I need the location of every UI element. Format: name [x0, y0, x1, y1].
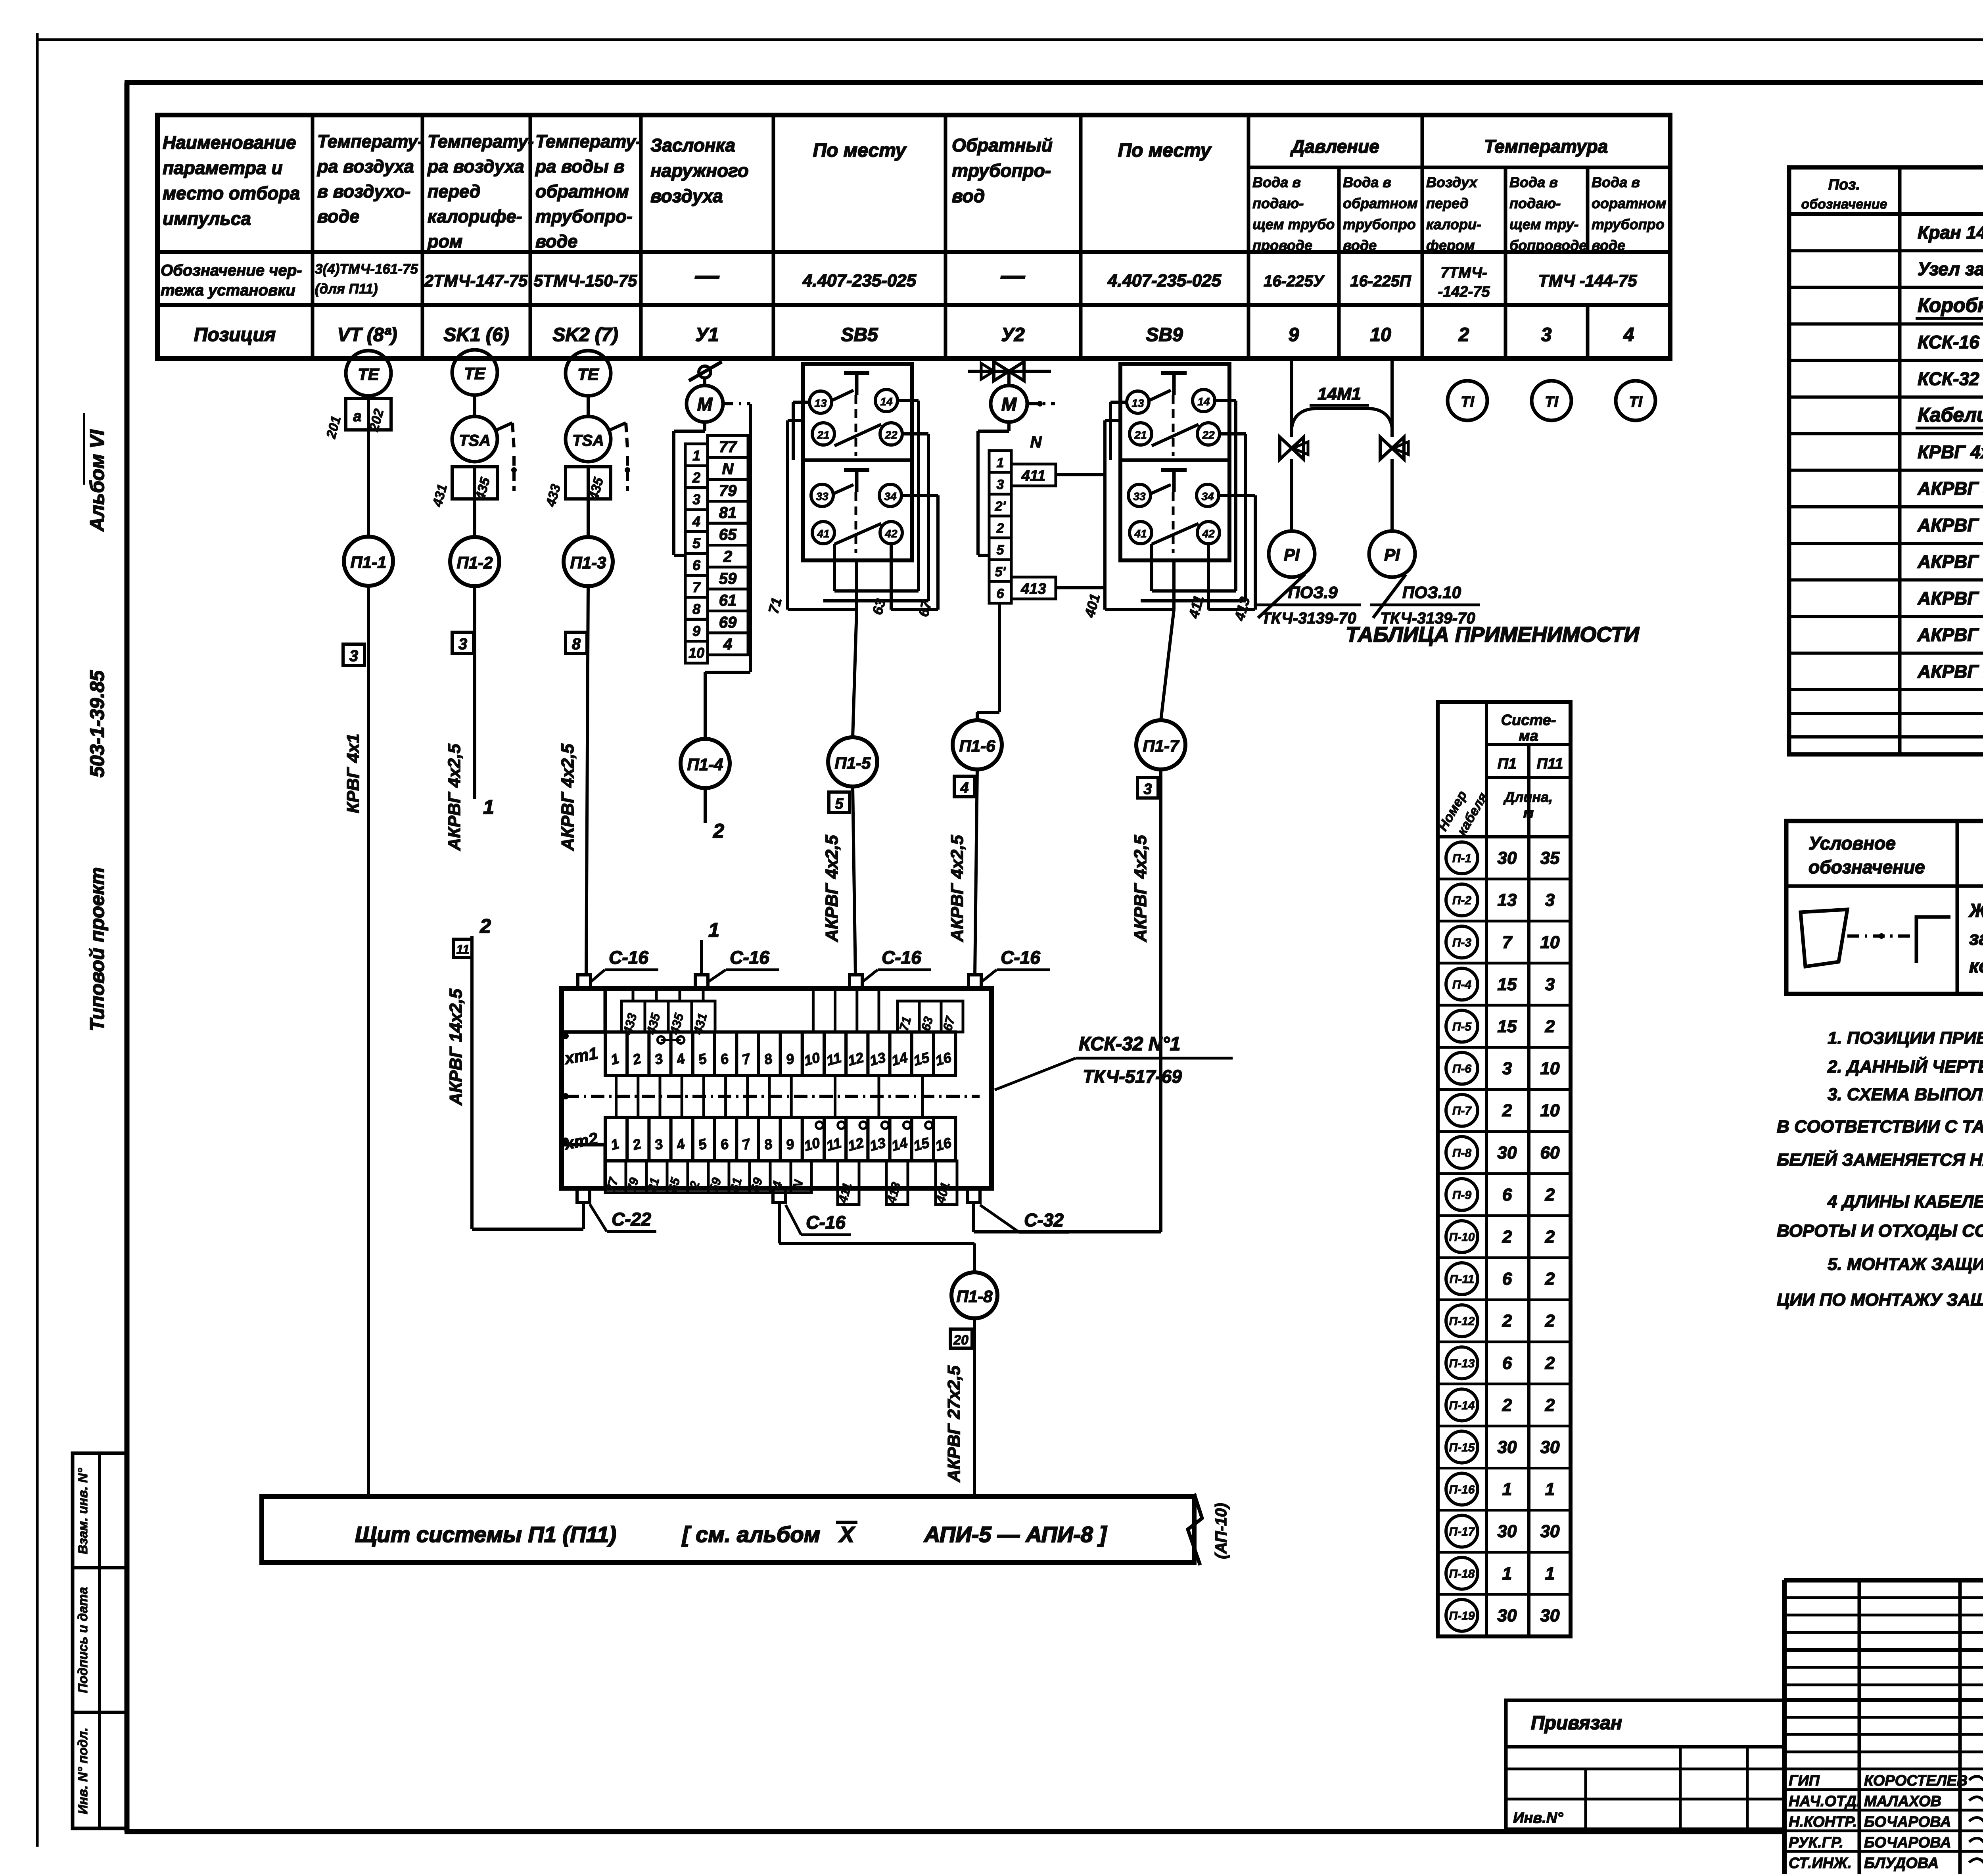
conductor count box 3 on П1-7 wire — [1137, 777, 1158, 798]
svg-text:П-8: П-8 — [1452, 1147, 1472, 1160]
svg-text:АКРВГ 4х2,5: АКРВГ 4х2,5 — [947, 835, 967, 942]
pressure gauge PI pos.10 — [1369, 531, 1480, 627]
thermometer TI 3 — [1616, 381, 1655, 420]
SB5 pin 13 — [809, 391, 832, 413]
svg-text:10: 10 — [1540, 1059, 1560, 1078]
svg-text:41: 41 — [1134, 528, 1147, 540]
SB9 outer loop wires — [1105, 401, 1255, 610]
applicability table heading — [1346, 623, 1640, 646]
svg-text:П1-1: П1-1 — [351, 553, 387, 572]
svg-text:3. СХЕМА ВЫПОЛНЕНА ДЛЯ СИСТ: 3. СХЕМА ВЫПОЛНЕНА ДЛЯ СИСТЕМЫ П1 И ПРИМ… — [1828, 1085, 1983, 1104]
svg-text:воде: воде — [317, 206, 359, 226]
svg-text:TSA: TSA — [572, 432, 604, 449]
svg-text:21: 21 — [1134, 429, 1147, 441]
svg-text:3: 3 — [1143, 781, 1152, 798]
table row: installation drawing designation — [161, 261, 1637, 300]
SB5 pin 22 — [880, 423, 902, 445]
svg-text:1: 1 — [692, 447, 700, 464]
svg-text:3: 3 — [458, 635, 467, 653]
svg-text:воде: воде — [535, 231, 577, 251]
svg-text:С-16: С-16 — [1001, 947, 1040, 968]
svg-text:П-1: П-1 — [1452, 852, 1471, 865]
svg-text:2: 2 — [1458, 324, 1469, 345]
svg-text:4: 4 — [692, 513, 700, 529]
svg-text:3: 3 — [997, 477, 1004, 492]
SB5 pin 14 — [875, 389, 898, 412]
svg-text:П1-8: П1-8 — [957, 1287, 993, 1306]
svg-text:SK2 (7): SK2 (7) — [552, 324, 618, 345]
thermometer TI 1 — [1448, 381, 1487, 420]
svg-text:АКРВГ 5х2,5: АКРВГ 5х2,5 — [1917, 515, 1983, 535]
svg-text:П-9: П-9 — [1452, 1189, 1472, 1202]
svg-text:6: 6 — [1502, 1353, 1512, 1373]
svg-text:ТI: ТI — [1629, 394, 1643, 410]
svg-text:2: 2 — [723, 548, 732, 566]
svg-text:4.407-235-025: 4.407-235-025 — [1107, 271, 1222, 290]
svg-text:трубопро-: трубопро- — [535, 206, 633, 226]
svg-text:6: 6 — [997, 586, 1005, 601]
svg-text:П-2: П-2 — [1452, 894, 1472, 907]
svg-text:4: 4 — [1623, 324, 1634, 345]
svg-text:КРВГ 4х1: КРВГ 4х1 — [343, 734, 363, 813]
svg-text:41: 41 — [817, 528, 829, 540]
svg-text:РI: РI — [1284, 545, 1300, 564]
svg-text:П1-4: П1-4 — [687, 755, 723, 774]
parts list table — [1789, 167, 1983, 754]
SB5 outer loop wires — [788, 401, 938, 610]
wire С-22 to riser 2 — [472, 915, 583, 1229]
left margin album label — [84, 413, 108, 1031]
svg-text:(АП-10): (АП-10) — [1212, 1503, 1230, 1559]
svg-text:SB9: SB9 — [1146, 324, 1183, 345]
svg-text:АКРВГ 14х2,5: АКРВГ 14х2,5 — [1917, 625, 1983, 645]
svg-text:30: 30 — [1540, 1437, 1560, 1457]
svg-text:ТМЧ -144-75: ТМЧ -144-75 — [1538, 271, 1638, 290]
svg-text:34: 34 — [1201, 490, 1214, 503]
svg-text:ПОЗ.10: ПОЗ.10 — [1402, 583, 1461, 602]
svg-text:защитного проводника и прис: защитного проводника и присоединяемая к — [1969, 928, 1983, 949]
wire С-16 bottom to П1-8 — [779, 1203, 974, 1272]
connector stub С-16 top2 — [695, 975, 708, 988]
svg-text:НАЧ.ОТД.: НАЧ.ОТД. — [1789, 1793, 1860, 1810]
svg-text:проводе: проводе — [1252, 237, 1312, 253]
wire П1-7 down and to connector С-32 — [974, 769, 1161, 1232]
svg-text:2: 2 — [1502, 1311, 1512, 1331]
SB5 wire labels 71 63 67 — [765, 596, 935, 618]
svg-text:7: 7 — [1502, 932, 1513, 952]
svg-text:КСК-32: КСК-32 — [1918, 368, 1979, 389]
svg-text:30: 30 — [1540, 1606, 1560, 1625]
svg-text:2: 2 — [692, 469, 700, 485]
svg-text:Инв. N° подл.: Инв. N° подл. — [75, 1728, 90, 1815]
svg-text:81: 81 — [719, 504, 737, 522]
svg-text:АКРВГ 4х2,5: АКРВГ 4х2,5 — [822, 835, 842, 942]
SB9 pin 13 — [1127, 391, 1149, 413]
svg-text:21: 21 — [817, 429, 829, 441]
svg-text:2: 2 — [713, 820, 724, 842]
svg-text:3: 3 — [1545, 890, 1555, 910]
svg-text:корпусу электрооборудования: корпусу электрооборудования — [1969, 956, 1983, 977]
svg-text:Взам. инв. N°: Взам. инв. N° — [75, 1468, 90, 1554]
thermostat TSA (SK1) — [452, 416, 517, 491]
valve 14М1 right — [1380, 437, 1408, 531]
svg-text:22: 22 — [884, 429, 898, 441]
svg-text:2: 2 — [1545, 1227, 1555, 1247]
connector stub С-32 bottom — [967, 1188, 980, 1203]
svg-text:30: 30 — [1540, 1522, 1560, 1541]
svg-text:N: N — [722, 460, 734, 478]
svg-text:16-225У: 16-225У — [1264, 272, 1325, 290]
svg-text:воде: воде — [1343, 237, 1377, 253]
left stamp strip — [73, 1453, 127, 1828]
svg-text:АКРВГ 4х2,5: АКРВГ 4х2,5 — [558, 744, 577, 851]
damper actuator symbol — [689, 362, 722, 386]
valve 14М1 left — [1280, 437, 1308, 531]
svg-text:6: 6 — [1502, 1269, 1512, 1289]
svg-text:7ТМЧ-: 7ТМЧ- — [1440, 265, 1487, 281]
svg-text:трубопро: трубопро — [1343, 216, 1416, 232]
cable circle П1-1 — [344, 537, 393, 586]
connector stub С-16 top1 — [578, 975, 591, 988]
svg-text:ГИП: ГИП — [1789, 1772, 1820, 1789]
wire column 9 from table — [1290, 359, 1293, 437]
svg-text:6: 6 — [692, 557, 701, 574]
svg-text:АКРВГ 14х2,5: АКРВГ 14х2,5 — [446, 989, 466, 1106]
legend description — [1968, 900, 1983, 977]
svg-text:БОЧАРОВА: БОЧАРОВА — [1864, 1814, 1951, 1830]
svg-text:14М1: 14М1 — [1318, 384, 1361, 404]
svg-text:П-11: П-11 — [1450, 1273, 1475, 1286]
svg-text:8: 8 — [692, 601, 700, 617]
svg-text:П-3: П-3 — [1452, 936, 1472, 949]
SB9 pin 14 — [1193, 389, 1215, 412]
svg-text:ТЕ: ТЕ — [464, 364, 486, 383]
svg-text:м: м — [1523, 805, 1534, 821]
svg-text:4.407-235-025: 4.407-235-025 — [802, 271, 917, 290]
svg-text:14: 14 — [880, 395, 893, 408]
svg-text:трубопро-: трубопро- — [952, 160, 1051, 181]
svg-text:Привязан: Привязан — [1531, 1713, 1622, 1734]
SB9 pin 21 — [1130, 423, 1152, 445]
svg-text:Узел зануления: Узел зануления — [1918, 259, 1983, 279]
motor M1 — [687, 386, 723, 422]
wire П1-2 down to node 1 — [475, 586, 494, 818]
svg-text:30: 30 — [1498, 1437, 1517, 1457]
svg-text:КСК-32 N°1: КСК-32 N°1 — [1079, 1034, 1180, 1055]
svg-text:5ТМЧ-150-75: 5ТМЧ-150-75 — [534, 271, 637, 290]
svg-text:69: 69 — [719, 614, 737, 631]
svg-text:У2: У2 — [1001, 324, 1025, 345]
svg-text:обозначение: обозначение — [1808, 857, 1925, 877]
svg-text:65: 65 — [719, 526, 737, 543]
svg-text:трубопро: трубопро — [1592, 216, 1665, 232]
svg-text:Н.КОНТР.: Н.КОНТР. — [1789, 1814, 1857, 1830]
svg-text:Заслонка: Заслонка — [650, 135, 735, 155]
svg-text:5': 5' — [995, 564, 1007, 579]
svg-text:ТЕ: ТЕ — [577, 365, 600, 384]
svg-text:1: 1 — [997, 455, 1004, 470]
svg-text:30: 30 — [1498, 1606, 1517, 1625]
svg-text:Систе-: Систе- — [1501, 712, 1556, 729]
svg-text:2: 2 — [1545, 1017, 1555, 1036]
svg-text:перед: перед — [428, 181, 480, 201]
svg-text:обратном: обратном — [1343, 195, 1418, 211]
connector stub С-16 bottom — [773, 1188, 786, 1203]
bracket M2 to strip — [978, 422, 1009, 555]
svg-text:77: 77 — [719, 438, 737, 456]
conductor count box 4 on П1-6 wire — [954, 776, 975, 797]
С-22 label — [590, 1204, 656, 1231]
wire to П1-3 — [587, 499, 590, 537]
motor M2 — [991, 386, 1027, 422]
SB5 pin 42 — [880, 522, 902, 544]
wire П1-3 down to connector С-16 no.1 — [586, 586, 588, 976]
bypass pipe 14М1 — [1292, 384, 1392, 428]
svg-text:бопроводе: бопроводе — [1509, 237, 1587, 253]
svg-text:Обозначение чер-: Обозначение чер- — [161, 262, 302, 279]
cable label АКРВГ 14х2,5 — [446, 989, 466, 1106]
svg-text:С-22: С-22 — [612, 1209, 651, 1230]
svg-text:Наименование: Наименование — [163, 132, 296, 153]
svg-text:4: 4 — [723, 636, 732, 653]
zero-conductor dash-dot bus — [562, 1093, 980, 1099]
svg-text:У1: У1 — [695, 324, 719, 345]
svg-text:13: 13 — [1131, 397, 1144, 409]
svg-text:22: 22 — [1202, 429, 1215, 441]
wire to П1-2 — [473, 499, 476, 537]
wire SB9 to П1-7 — [1161, 560, 1174, 720]
svg-text:в воздухо-: в воздухо- — [317, 181, 410, 201]
svg-text:КСК-16: КСК-16 — [1918, 332, 1979, 353]
svg-text:ЦИИ ПО МОНТАЖУ ЗАЩИТНОГО З: ЦИИ ПО МОНТАЖУ ЗАЩИТНОГО ЗАЗЕМЛЕНИЯ И ЗА… — [1777, 1290, 1983, 1310]
svg-text:П11: П11 — [1537, 756, 1563, 772]
svg-text:Давление: Давление — [1290, 136, 1379, 157]
terminal strip XT under У1 — [685, 435, 748, 663]
sensor TE chain 2 — [452, 350, 497, 395]
terminal row ХТ1 — [562, 1032, 955, 1076]
svg-text:33: 33 — [816, 490, 828, 503]
wire TE2 to TSA — [473, 395, 476, 416]
svg-text:3: 3 — [1541, 324, 1552, 345]
svg-text:воде: воде — [1592, 237, 1625, 253]
svg-text:42: 42 — [1202, 528, 1215, 540]
svg-text:П-10: П-10 — [1449, 1231, 1475, 1244]
connector stub С-16 top3 — [850, 975, 862, 988]
svg-text:Воздух: Воздух — [1426, 174, 1478, 190]
cable label АКРВГ 4х2,5 chain5 — [822, 835, 842, 942]
svg-text:3: 3 — [349, 647, 358, 665]
svg-text:—: — — [695, 262, 719, 289]
ХТ2 lower wire number boxes — [603, 1161, 811, 1193]
svg-text:Обратный: Обратный — [952, 135, 1053, 155]
sensor TE (VT) chain 1 — [346, 351, 391, 396]
svg-text:—: — — [1001, 262, 1025, 289]
svg-text:П1-2: П1-2 — [457, 553, 493, 572]
ХТ2 tall boxes 411 413 401 — [835, 1161, 957, 1205]
svg-text:АКРВГ 7х2,5: АКРВГ 7х2,5 — [1917, 551, 1983, 572]
svg-text:3: 3 — [1545, 974, 1555, 994]
SB5 pin 21 — [812, 423, 834, 445]
svg-text:13: 13 — [814, 397, 827, 409]
svg-text:30: 30 — [1498, 1522, 1517, 1541]
svg-text:ром: ром — [427, 231, 462, 251]
svg-text:параметра и: параметра и — [163, 157, 282, 178]
title block signatures scribbles — [1969, 1776, 1983, 1866]
svg-text:5: 5 — [692, 535, 701, 551]
svg-text:М: М — [697, 394, 713, 414]
title block — [1784, 1580, 1983, 1874]
svg-text:Кран 14М1, Ду 15, ГОСТ 2134: Кран 14М1, Ду 15, ГОСТ 21345-78 — [1918, 222, 1983, 243]
svg-text:2: 2 — [1545, 1269, 1555, 1289]
svg-text:2: 2 — [1545, 1353, 1555, 1373]
SB5 contact blades — [832, 390, 881, 544]
svg-text:Вода в: Вода в — [1592, 174, 1640, 190]
cable circle П1-8 — [951, 1272, 997, 1318]
svg-text:тежа установки: тежа установки — [161, 282, 295, 299]
svg-text:10: 10 — [1540, 1101, 1560, 1120]
svg-text:АКРВГ 4х2,5: АКРВГ 4х2,5 — [445, 744, 464, 851]
cable circle П1-3 — [564, 537, 613, 586]
svg-text:VT (8ª): VT (8ª) — [337, 324, 397, 345]
wire 413 strip to SB9 — [1056, 586, 1105, 589]
cable circle П1-6 — [953, 720, 1002, 769]
cable circle П1-5 — [828, 737, 877, 786]
svg-text:ТКЧ-517-69: ТКЧ-517-69 — [1083, 1066, 1182, 1087]
svg-text:Подпись и дата: Подпись и дата — [75, 1587, 90, 1693]
svg-text:1: 1 — [1502, 1564, 1512, 1583]
svg-text:20: 20 — [953, 1333, 968, 1348]
svg-text:АПИ-5 — АПИ-8 ]: АПИ-5 — АПИ-8 ] — [923, 1522, 1107, 1547]
instrument parameter table — [157, 115, 1670, 359]
conductor count box 3 on П1-1 wire — [343, 644, 364, 666]
applicability table — [1435, 702, 1571, 1636]
conductor count box 5 on П1-5 wire — [829, 792, 850, 813]
svg-text:61: 61 — [719, 592, 737, 609]
svg-text:П-13: П-13 — [1449, 1357, 1475, 1370]
svg-text:1: 1 — [708, 919, 719, 941]
wire П1-6 to connector С-16 no.4 — [975, 769, 977, 976]
svg-text:2: 2 — [1545, 1185, 1555, 1205]
svg-text:4: 4 — [960, 780, 968, 796]
wire column 10 from table — [1390, 359, 1394, 437]
cross wires ХТ1 to ХТ2 — [616, 1076, 923, 1117]
svg-text:15: 15 — [1498, 974, 1517, 994]
svg-text:16-225П: 16-225П — [1350, 272, 1411, 290]
svg-text:15: 15 — [1498, 1017, 1517, 1036]
svg-text:РУК.ГР.: РУК.ГР. — [1789, 1834, 1843, 1851]
SB5 pin 33 — [811, 484, 833, 506]
SB9 pin 22 — [1197, 423, 1220, 445]
internal riser wires ХТ1 — [813, 988, 879, 1032]
cable label АКРВГ 4х2,5 chain3 — [558, 744, 577, 851]
conductor count box 3 on П1-2 wire — [452, 632, 474, 654]
svg-text:ра воздуха: ра воздуха — [317, 156, 414, 176]
svg-text:Условное: Условное — [1808, 833, 1896, 854]
svg-text:ТI: ТI — [1545, 394, 1559, 410]
cable label АКРВГ 27х2,5 — [944, 1366, 964, 1483]
notes — [1777, 1028, 1983, 1310]
svg-text:П-18: П-18 — [1449, 1567, 1475, 1581]
SB5 pin 34 — [879, 484, 901, 506]
svg-text:11: 11 — [456, 942, 469, 957]
С-16 bottom label — [786, 1205, 851, 1235]
svg-text:79: 79 — [719, 482, 737, 500]
conductor count box 20 — [950, 1329, 972, 1348]
svg-text:Вода в: Вода в — [1252, 174, 1301, 190]
svg-text:фером: фером — [1426, 237, 1475, 253]
svg-text:калорифе-: калорифе- — [428, 206, 522, 226]
svg-text:5: 5 — [997, 543, 1005, 558]
svg-text:35: 35 — [1540, 848, 1560, 868]
svg-text:10: 10 — [1540, 932, 1560, 952]
svg-text:Температу-: Температу- — [535, 131, 642, 152]
svg-text:П-7: П-7 — [1452, 1105, 1472, 1118]
break mark АП-10 — [1188, 1494, 1230, 1565]
svg-text:перед: перед — [1426, 195, 1469, 211]
svg-text:Длина,: Длина, — [1503, 789, 1553, 805]
svg-text:вод: вод — [952, 186, 985, 206]
svg-text:1: 1 — [1545, 1480, 1555, 1499]
conductor count box 8 on П1-3 wire — [566, 632, 587, 654]
svg-text:а: а — [353, 408, 361, 425]
svg-text:М: М — [1001, 394, 1017, 414]
svg-text:3: 3 — [1502, 1059, 1512, 1078]
title block signature rows — [1789, 1772, 1968, 1872]
svg-text:Коробки соединительные ТУ 36.: Коробки соединительные ТУ 36.1753-75 — [1918, 294, 1983, 316]
valve symbol У2 — [968, 362, 1051, 386]
cable label КРВГ 4х1 — [343, 734, 363, 813]
connector stub С-16 top4 — [968, 975, 981, 988]
svg-text:Альбом VI: Альбом VI — [86, 429, 108, 532]
ХТ1 upper wire number boxes 433 435 435 431 — [620, 988, 715, 1036]
svg-text:5: 5 — [835, 796, 844, 812]
svg-text:АКРВГ 27х2,5: АКРВГ 27х2,5 — [1917, 661, 1983, 682]
terminal strip XT under У2 — [989, 434, 1056, 603]
svg-text:9: 9 — [1289, 324, 1299, 345]
svg-text:По месту: По месту — [1118, 140, 1212, 161]
terminal row ХТ2 — [562, 1117, 955, 1161]
svg-text:АКРВГ 27х2,5: АКРВГ 27х2,5 — [944, 1366, 964, 1483]
svg-text:Щит системы П1 (П11): Щит системы П1 (П11) — [355, 1522, 616, 1547]
svg-text:SB5: SB5 — [841, 324, 878, 345]
cable label АКРВГ 4х2,5 chain2 — [445, 744, 464, 851]
annex Привязан — [1506, 1700, 1784, 1829]
svg-text:X: X — [838, 1522, 855, 1547]
svg-text:наружного: наружного — [650, 160, 749, 181]
svg-text:34: 34 — [884, 490, 897, 503]
svg-text:П-6: П-6 — [1452, 1063, 1472, 1076]
SB9 pin 34 — [1197, 484, 1219, 506]
svg-text:TSA: TSA — [459, 432, 491, 449]
svg-text:подаю-: подаю- — [1509, 195, 1561, 211]
svg-text:42: 42 — [884, 528, 898, 540]
terminal pair 433/435 — [543, 467, 611, 508]
svg-text:7: 7 — [692, 579, 701, 595]
svg-text:ооратном: ооратном — [1592, 195, 1666, 211]
svg-text:АКРВГ 10х2,5: АКРВГ 10х2,5 — [1917, 588, 1983, 608]
svg-text:ТКЧ-3139-70: ТКЧ-3139-70 — [1261, 610, 1356, 627]
svg-text:П-14: П-14 — [1449, 1399, 1475, 1412]
svg-text:4 ДЛИНЫ КАБЕЛЕЙ ДАНЫ С УЧ: 4 ДЛИНЫ КАБЕЛЕЙ ДАНЫ С УЧЕТОМ 6% НАДБАВК… — [1827, 1191, 1983, 1211]
svg-text:ма: ма — [1519, 728, 1538, 744]
SB9 pin 41 — [1130, 522, 1152, 544]
svg-text:3: 3 — [692, 491, 700, 508]
svg-text:-142-75: -142-75 — [1438, 284, 1490, 300]
svg-text:П-19: П-19 — [1449, 1609, 1475, 1623]
ХТ1 upper wire number boxes 71 63 67 — [896, 1001, 963, 1032]
svg-text:Поз.: Поз. — [1828, 176, 1860, 193]
svg-text:ТI: ТI — [1461, 394, 1475, 410]
